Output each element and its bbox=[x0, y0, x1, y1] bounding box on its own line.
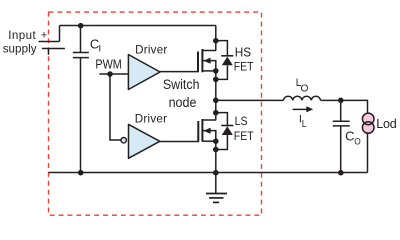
wire: switch node to inductor bbox=[216, 99, 284, 101]
capacitor CO lead top bbox=[340, 100, 342, 120]
label: LS FET bbox=[234, 114, 254, 143]
op-amp U2 lower gate driver bbox=[129, 124, 160, 158]
transistor Q2 LS FET bbox=[198, 119, 216, 142]
svg-text:FET: FET bbox=[234, 59, 254, 73]
transistor Q1 HS FET bbox=[198, 49, 216, 72]
capacitor CI lead bottom bbox=[80, 58, 82, 172]
svg-text:Switch: Switch bbox=[163, 77, 200, 92]
converter boundary (red dashed box) bbox=[49, 12, 262, 215]
diode D1 HS body diode bbox=[216, 41, 234, 80]
wire: HS drain lead bbox=[215, 26, 217, 51]
node: output junction top bbox=[338, 98, 344, 104]
label: HS FET bbox=[234, 44, 254, 73]
svg-text:PWM: PWM bbox=[95, 58, 121, 72]
node: switch node output junction bbox=[213, 98, 219, 104]
node: HS diode return junction bbox=[213, 77, 219, 83]
capacitor CO lead bottom bbox=[340, 127, 342, 173]
node: HS source junction bbox=[213, 68, 219, 74]
label: Switch node bbox=[163, 77, 200, 110]
svg-text:+: + bbox=[41, 30, 47, 42]
wire: PWM input to upper driver bbox=[99, 73, 129, 75]
svg-text:node: node bbox=[169, 95, 197, 110]
node: ground rail FET junction bbox=[213, 170, 219, 176]
label: Input supply + bbox=[3, 29, 48, 56]
wire: lower driver output to LS gate bbox=[159, 141, 199, 143]
svg-text:FET: FET bbox=[234, 129, 254, 143]
wire: bottom ground rail bbox=[49, 172, 368, 174]
capacitor CO plates bbox=[333, 121, 350, 126]
wire: battery riser to top rail bbox=[59, 26, 61, 42]
wire: LS source down to ground rail bbox=[215, 141, 217, 172]
capacitor CI lead top bbox=[80, 26, 82, 53]
HS FET body arrow bbox=[203, 58, 210, 64]
svg-text:Input: Input bbox=[8, 29, 36, 42]
LS FET body arrow bbox=[203, 128, 210, 134]
wire: output node to load top bbox=[341, 100, 368, 113]
node: CI top junction bbox=[78, 23, 84, 29]
inductor LO bbox=[284, 96, 321, 100]
wire: HS source down to LS drain bbox=[215, 71, 217, 120]
capacitor CI plates bbox=[73, 53, 89, 58]
svg-text:LS: LS bbox=[235, 114, 248, 128]
svg-text:I: I bbox=[99, 44, 102, 55]
ground bbox=[206, 173, 227, 203]
wire: inductor to output node bbox=[321, 99, 341, 101]
svg-text:C: C bbox=[345, 129, 354, 144]
node: CI bottom junction bbox=[78, 170, 84, 176]
svg-text:supply: supply bbox=[3, 43, 37, 56]
node: LS drain junction bbox=[213, 110, 219, 116]
node: PWM junction bbox=[107, 71, 113, 77]
node: CO bottom junction bbox=[338, 170, 344, 176]
label: IL bbox=[299, 113, 307, 130]
svg-text:O: O bbox=[301, 83, 309, 94]
diode D2 LS body diode bbox=[216, 113, 234, 150]
svg-text:HS: HS bbox=[235, 44, 252, 59]
label: LO bbox=[296, 77, 309, 94]
node: LS diode return junction bbox=[213, 147, 219, 153]
battery negative lead stub bbox=[48, 49, 50, 55]
svg-text:L: L bbox=[302, 119, 307, 130]
inverter bubble on lower driver input bbox=[121, 138, 126, 143]
svg-text:Driver: Driver bbox=[135, 113, 167, 126]
input supply battery plates bbox=[39, 42, 65, 49]
label: CO bbox=[345, 129, 361, 148]
wire: load bottom lead bbox=[367, 133, 369, 173]
svg-text:Lod: Lod bbox=[376, 117, 397, 131]
wire: top rail bbox=[60, 25, 216, 27]
current arrow IL bbox=[293, 106, 314, 112]
op-amp U1 upper gate driver bbox=[128, 55, 160, 90]
wire: upper driver output to HS gate bbox=[160, 71, 199, 73]
node: HS drain junction bbox=[213, 38, 219, 44]
svg-text:Driver: Driver bbox=[135, 43, 167, 56]
load (two pink circles) bbox=[362, 113, 374, 133]
label: CI bbox=[90, 36, 101, 54]
wire: PWM branch down to lower driver bbox=[110, 74, 121, 140]
svg-text:O: O bbox=[354, 137, 361, 148]
node: LS source junction bbox=[213, 138, 219, 144]
